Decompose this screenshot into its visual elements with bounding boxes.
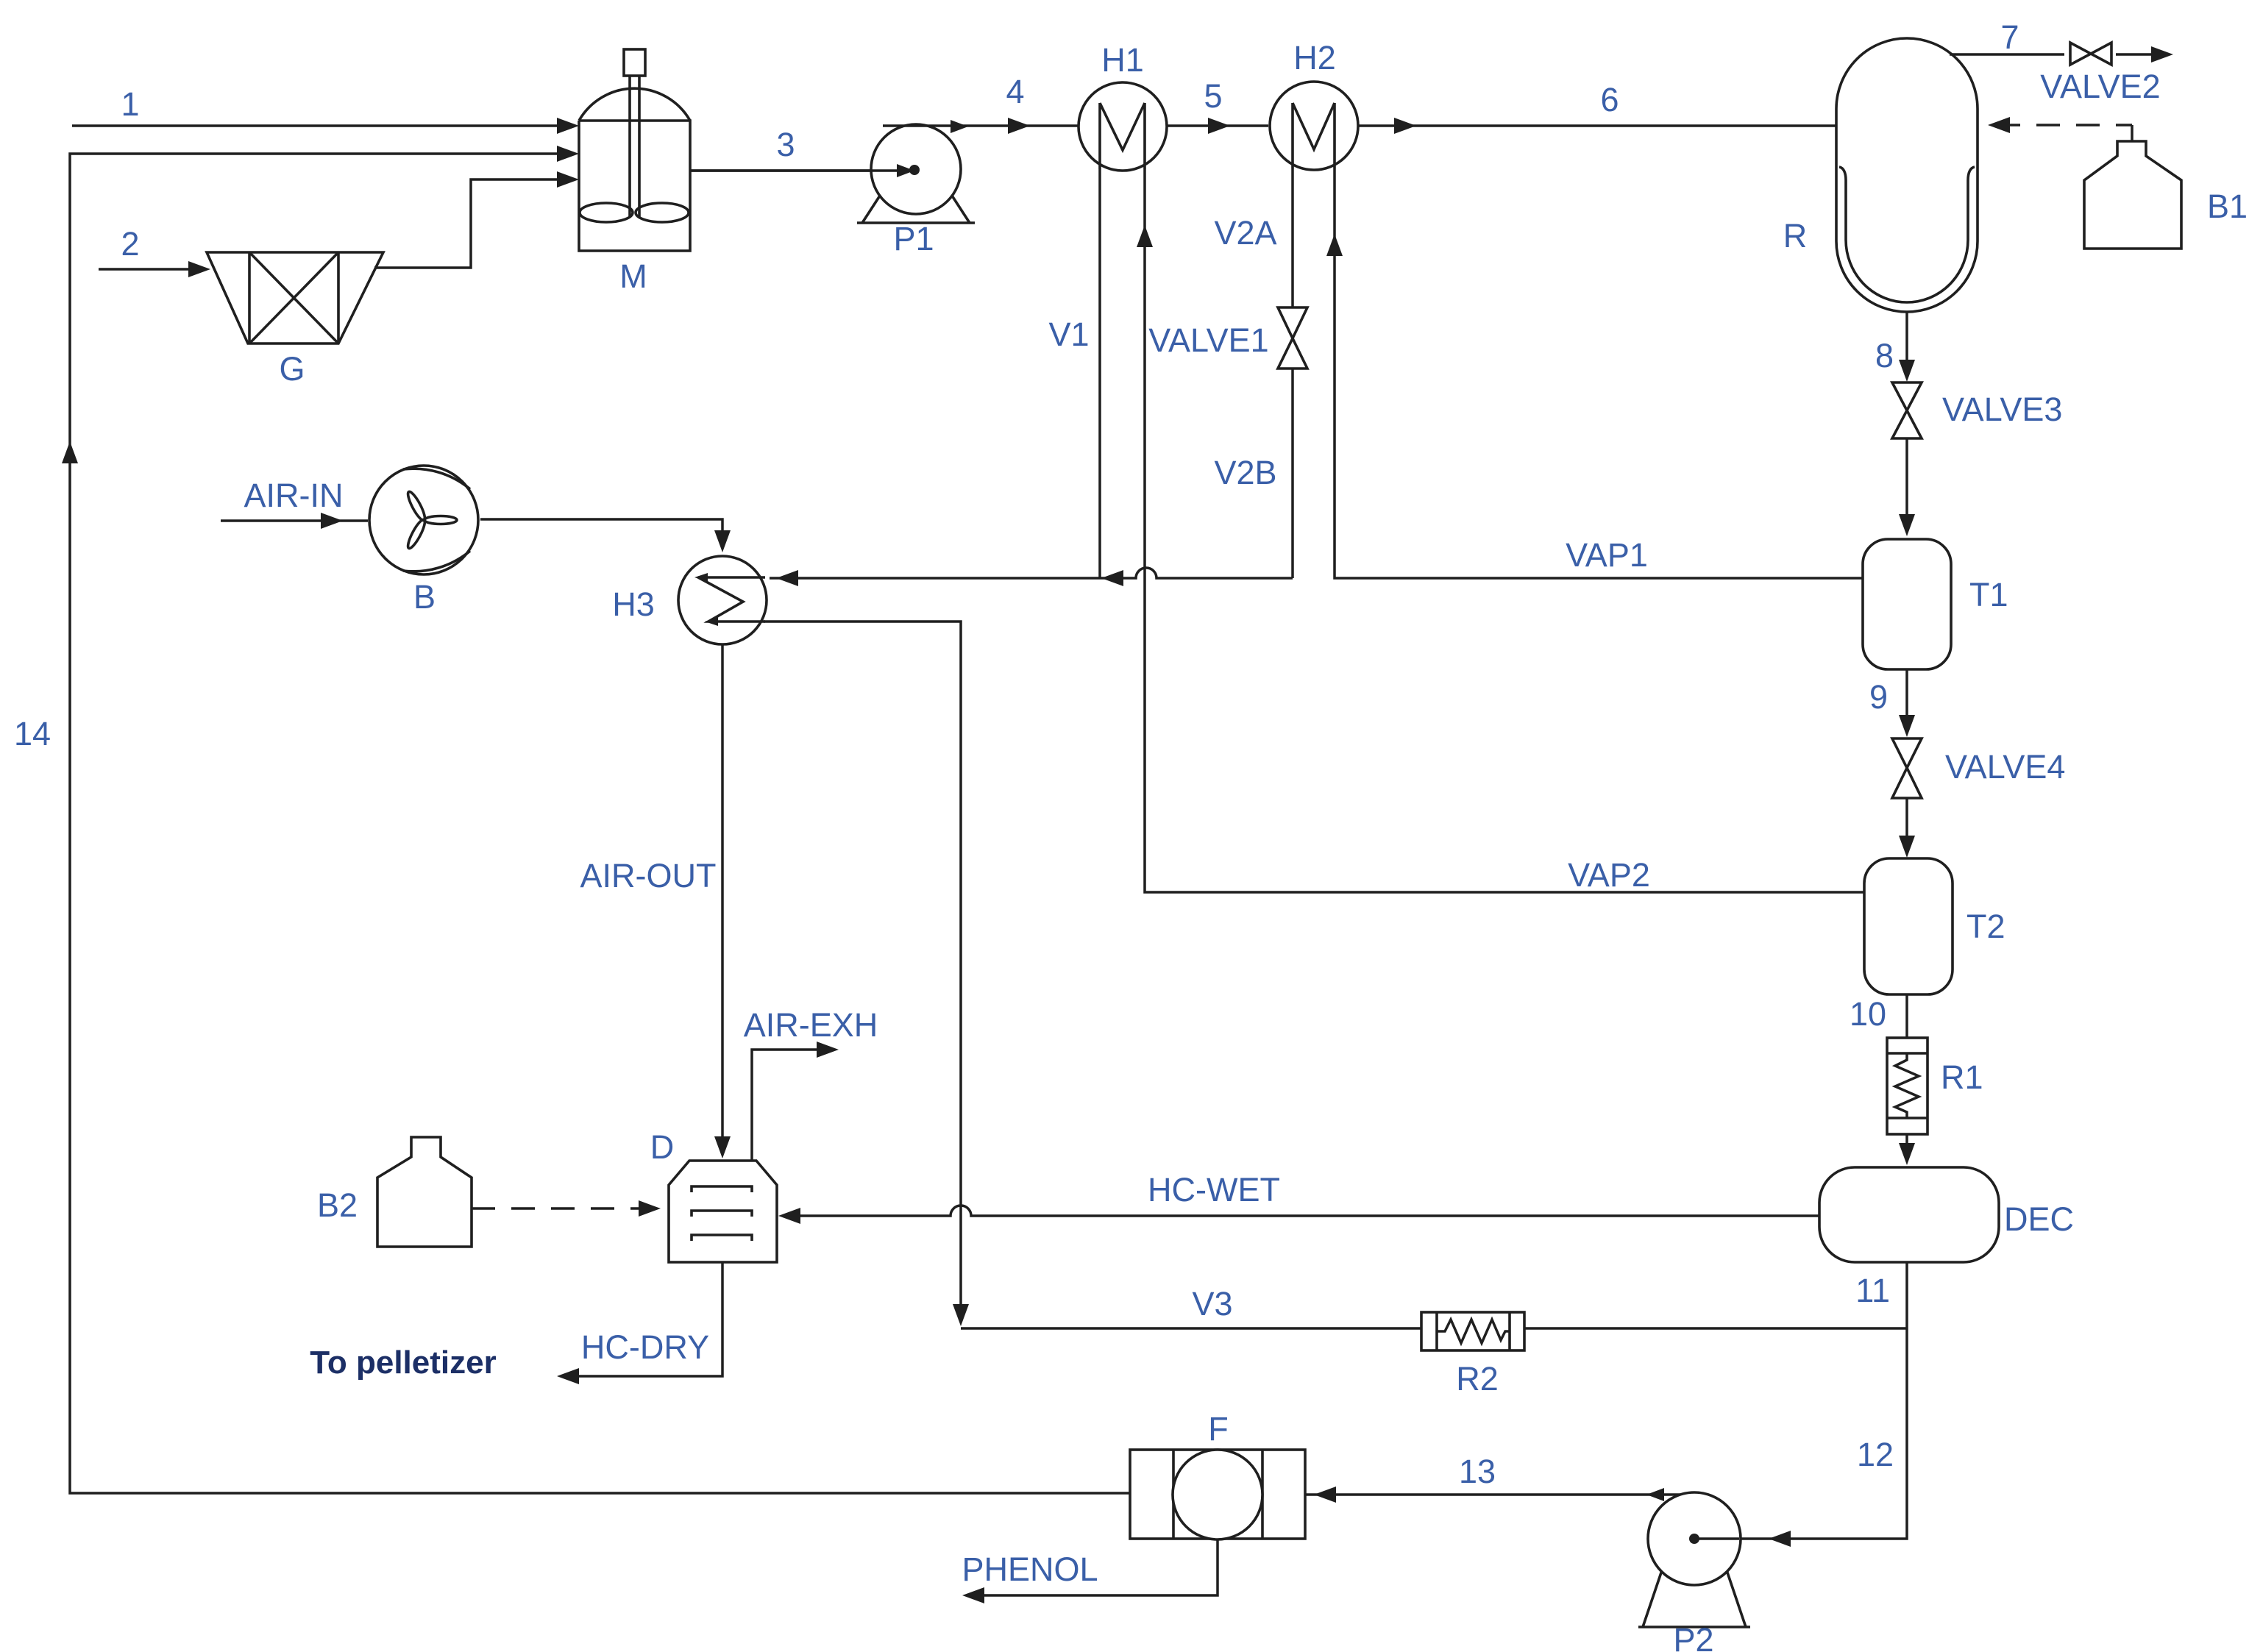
svg-text:AIR-IN: AIR-IN: [244, 477, 344, 514]
svg-text:D: D: [650, 1128, 675, 1166]
svg-text:VALVE2: VALVE2: [2040, 68, 2160, 105]
wire B1 dashed feed to R: [1988, 117, 2132, 141]
svg-text:AIR-OUT: AIR-OUT: [580, 857, 717, 894]
bag B2: [317, 1137, 472, 1247]
decanter DEC: [1819, 1167, 2074, 1262]
svg-text:12: 12: [1857, 1436, 1894, 1473]
svg-text:14: 14: [14, 715, 51, 752]
svg-text:To pelletizer: To pelletizer: [310, 1345, 496, 1381]
svg-text:V2B: V2B: [1214, 454, 1276, 491]
tank T1: [1863, 539, 2008, 669]
svg-text:VALVE4: VALVE4: [1945, 748, 2065, 786]
svg-text:7: 7: [2000, 18, 2019, 56]
heat exchanger H1: [1079, 41, 1167, 171]
svg-text:3: 3: [776, 126, 795, 163]
heat exchanger H3: [612, 556, 767, 644]
restrictor R1: [1887, 1038, 1983, 1134]
wire PHENOL out of F: [962, 1539, 1218, 1603]
svg-text:VAP2: VAP2: [1568, 856, 1650, 894]
restrictor R2: [1421, 1312, 1524, 1398]
wire stream 3: [690, 126, 914, 177]
wire B2 dashed to D: [472, 1200, 661, 1217]
svg-text:VALVE1: VALVE1: [1148, 321, 1268, 359]
svg-text:8: 8: [1875, 337, 1894, 374]
wire stream 7: [1950, 18, 2173, 63]
dryer D: [650, 1128, 777, 1262]
svg-text:T2: T2: [1966, 908, 2005, 945]
svg-text:B2: B2: [317, 1186, 358, 1224]
svg-text:H1: H1: [1101, 41, 1144, 79]
svg-text:DEC: DEC: [2004, 1200, 2074, 1238]
wire stream 8: [1875, 312, 1915, 382]
svg-text:4: 4: [1006, 73, 1024, 110]
pump P2: [1638, 1492, 1750, 1652]
wire stream 13: [1305, 1453, 1689, 1503]
svg-text:R: R: [1783, 217, 1808, 254]
svg-text:B1: B1: [2207, 188, 2248, 225]
mixer M: [579, 49, 690, 295]
wire HC-WET from DEC to D: [778, 1171, 1819, 1224]
wire H3 outlet to V3 corner: [764, 622, 969, 1326]
svg-text:F: F: [1208, 1410, 1229, 1448]
svg-text:AIR-EXH: AIR-EXH: [744, 1006, 878, 1044]
svg-text:V1: V1: [1048, 316, 1089, 353]
wire G to mixer: [374, 171, 579, 268]
wire stream 10: [1850, 994, 1907, 1038]
wire V3 to DEC line: [961, 1285, 1907, 1328]
grinder G: [207, 252, 383, 388]
blower B: [221, 466, 478, 616]
svg-text:HC-DRY: HC-DRY: [581, 1328, 709, 1366]
wire VALVE3 to T1: [1899, 438, 1915, 536]
wire V1: [1048, 169, 1100, 578]
wire stream 6: [1358, 81, 1836, 134]
svg-text:H2: H2: [1293, 39, 1336, 76]
bag B1: [2084, 141, 2248, 249]
svg-text:T1: T1: [1969, 576, 2008, 613]
svg-text:5: 5: [1204, 77, 1222, 115]
svg-text:B: B: [413, 578, 436, 616]
valve VALVE1: [1148, 307, 1307, 369]
wire VAP2 from T2 to H1: [1137, 169, 1864, 894]
wire streams 11 and 12 DEC to P2: [1702, 1262, 1907, 1547]
tank T2: [1864, 858, 2005, 994]
wire VAP1 from T1 to H2: [1326, 168, 1863, 578]
svg-text:H3: H3: [612, 585, 655, 623]
wire stream 2: [99, 225, 210, 277]
svg-text:2: 2: [121, 225, 139, 263]
pump P1: [690, 124, 975, 257]
filter F: [1130, 1410, 1305, 1539]
valve VALVE3: [1892, 382, 2062, 438]
wire stream 4: [883, 73, 1079, 134]
svg-text:13: 13: [1459, 1453, 1496, 1490]
reactor R: [1783, 38, 1978, 312]
svg-text:G: G: [279, 350, 305, 388]
svg-text:V3: V3: [1192, 1285, 1232, 1322]
wire AIR-OUT H3 to D: [580, 644, 731, 1158]
svg-text:9: 9: [1869, 678, 1888, 716]
wire B to H3: [480, 519, 731, 552]
svg-text:R2: R2: [1456, 1360, 1499, 1398]
wire HC-DRY from D: [557, 1262, 722, 1384]
svg-text:M: M: [619, 257, 647, 295]
svg-text:VAP1: VAP1: [1566, 536, 1648, 574]
svg-text:VALVE3: VALVE3: [1942, 391, 2062, 428]
svg-text:R1: R1: [1941, 1058, 1983, 1096]
wire AIR-EXH from D: [744, 1006, 878, 1161]
wire R1 to DEC: [1899, 1134, 1915, 1165]
svg-text:10: 10: [1850, 995, 1886, 1033]
svg-text:1: 1: [121, 85, 139, 123]
svg-text:V2A: V2A: [1214, 214, 1276, 252]
svg-text:P2: P2: [1673, 1621, 1713, 1652]
wire stream 9: [1869, 669, 1915, 737]
valve VALVE4: [1892, 738, 2065, 798]
wire V2A: [1214, 168, 1293, 307]
valve VALVE2: [2040, 43, 2160, 105]
wire stream 5: [1167, 77, 1268, 134]
svg-text:HC-WET: HC-WET: [1148, 1171, 1280, 1208]
wire V2B to H3: [770, 369, 1293, 586]
svg-text:6: 6: [1600, 81, 1619, 118]
heat exchanger H2: [1270, 39, 1358, 170]
wire stream 14 recycle loop: [14, 146, 1130, 1493]
svg-text:P1: P1: [893, 220, 934, 257]
wire VALVE4 to T2: [1899, 798, 1915, 858]
svg-text:11: 11: [1855, 1272, 1890, 1309]
wire stream 1: [72, 85, 579, 134]
svg-text:PHENOL: PHENOL: [962, 1550, 1098, 1588]
